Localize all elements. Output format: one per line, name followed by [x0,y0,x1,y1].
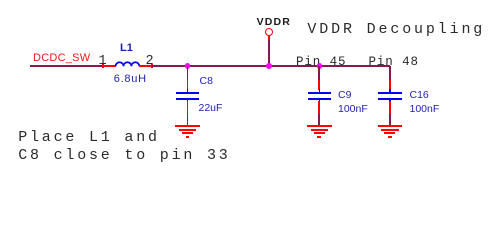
reference designator C8 [200,76,213,87]
capacitor C8 bottom pin (red) [187,101,189,114]
pin 1 of L1 (red stub) [102,65,116,67]
wire C9 to ground [318,114,320,125]
pin 1 end tick [102,64,104,68]
capacitor C9 bottom pin (red) [318,101,320,114]
ground symbol for C16 [378,125,403,127]
wire VDDR vertical [268,40,270,66]
ground symbol for C8 [175,125,200,127]
capacitor C9 top lead (blue) [319,89,321,93]
junction node at C9 [317,63,323,69]
power port VDDR circle [265,28,273,36]
value label 22uF [199,103,223,114]
value label 100nF (C9) [338,104,368,115]
capacitor C8 top pin (red) [187,80,189,91]
pin number 1 [99,55,107,69]
capacitor C9 bottom lead (blue) [319,100,321,103]
pin number 2 [146,55,154,69]
capacitor C8 bottom lead (blue) [187,100,189,103]
capacitor C16 top lead (blue) [389,89,391,93]
capacitor C8 plates [176,92,200,94]
capacitor C16 top pin (red) [389,80,391,91]
junction node at C8 [185,63,191,69]
pin of VDDR port (red tip) [268,35,270,40]
capacitor C16 plates [378,92,402,94]
wire corner down to C16 [389,66,391,80]
net label DCDC_SW [33,53,90,64]
wire C8 vertical from bus [187,66,189,80]
capacitor C9 plates [308,92,332,94]
ground symbol for C9 [307,125,332,127]
wire DCDC_SW horizontal segment [30,65,103,67]
net label Pin 45 [296,56,346,69]
wire C16 to ground [389,114,391,125]
wire main bus from L1 to corner [152,65,390,67]
value label 6.8uH [114,74,147,85]
junction node at VDDR [266,63,272,69]
note text line 1 [18,129,230,166]
value label 100nF (C16) [410,104,440,115]
net label Pin 48 [369,56,419,69]
capacitor C9 top pin (red) [318,80,320,91]
pin 2 of L1 (red stub) [139,65,153,67]
capacitor C16 bottom pin (red) [389,101,391,114]
reference designator C9 [338,90,351,101]
power port VDDR label [257,17,291,28]
reference designator L1 [120,43,133,54]
reference designator C16 [410,90,429,101]
title text VDDR Decoupling [307,22,485,37]
wire C9 vertical from bus [318,66,320,80]
capacitor C16 bottom lead (blue) [389,100,391,103]
wire C8 to ground [187,114,189,125]
inductor L1 coil [114,58,141,68]
capacitor C8 top lead (blue) [187,89,189,93]
pin 2 end tick [151,64,153,68]
